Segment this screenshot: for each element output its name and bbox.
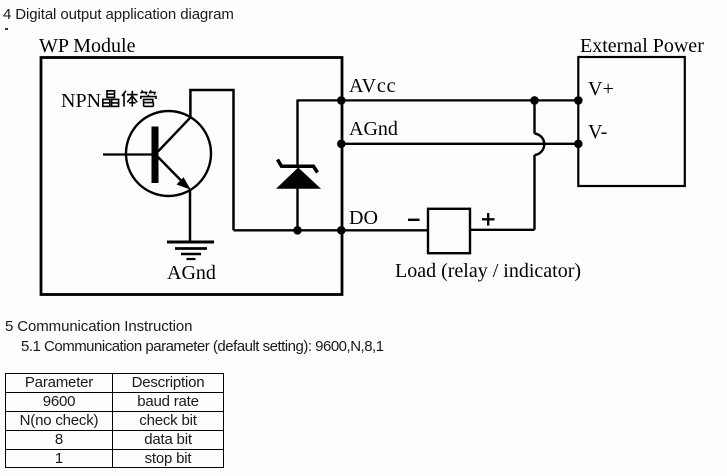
zener diode D1 anode triangle [276,168,321,189]
zener diode D1 top lead wire [296,100,298,167]
glyph 体 [122,91,138,107]
wire: collector up-over-down to DO net [190,90,233,230]
label: DO net [349,208,378,228]
label: AGnd net [349,119,398,139]
stray mark under title [5,28,8,30]
label: External Power [580,36,704,56]
wire: AGnd net [341,143,578,145]
junction dot: V- terminal [574,140,583,149]
zener diode D1 bottom lead wire [296,188,298,230]
External Power box [578,57,685,186]
transistor Q1 emitter stroke with arrow [158,157,191,190]
wire: emitter down to ground [189,189,192,241]
wire: AVcc net [298,99,579,101]
label: Load (relay / indicator) [395,261,581,281]
load box (relay / indicator) [428,209,470,253]
transistor Q1 collector stroke [158,118,190,152]
zener diode D1 cathode bar [278,160,318,173]
glyph 管 [141,90,156,106]
junction dot: AVcc at WP box edge [337,96,346,105]
label: V+ terminal [588,79,614,99]
label: AGnd under ground symbol [167,263,216,283]
junction dot: V+ terminal [574,96,583,105]
label: load plus polarity [480,211,500,229]
junction dot: AGnd at WP box edge [337,140,346,149]
section title: 4 Digital output application diagram [3,7,234,22]
wire: DO net [234,229,429,231]
section title: 5 Communication Instruction [5,319,192,334]
label: load minus polarity [405,215,425,225]
transistor Q1 NPN: circle [126,111,211,196]
ground symbol AGnd [167,242,214,259]
subsection: 5.1 Communication parameter [21,339,384,354]
transistor Q1 base bar [152,127,159,184]
junction dot: DO at WP box edge [337,226,346,235]
junction dot: zener anode on DO net [293,226,302,235]
wire: V+ vertical drop lower segment [533,155,535,230]
label: NPN transistor (NPN晶体管) [61,89,157,111]
label: V- terminal [588,122,607,142]
label: AVcc net [349,76,396,96]
WP Module box [41,58,342,295]
table: communication parameters [5,373,224,468]
wire hop: crossing over AGnd net [535,134,545,156]
transistor Q1 base lead wire [103,153,152,155]
label: WP Module [39,36,135,56]
glyph 晶 [107,91,115,98]
wire: load plus side to V+ drop [470,229,535,231]
wire: V+ vertical drop upper segment [533,100,535,133]
junction dot: AVcc to drop wire [530,96,539,105]
